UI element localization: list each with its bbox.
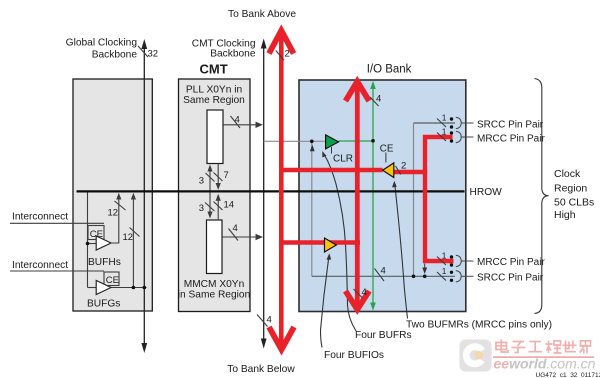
svg-text:4: 4 <box>362 287 367 298</box>
buffer BUFG <box>96 281 111 295</box>
junction dot BUFG output V2 <box>132 286 136 290</box>
glyph zi <box>512 342 526 353</box>
svg-text:UG472_c1_32_011713: UG472_c1_32_011713 <box>536 372 600 378</box>
red MRCC riser <box>425 137 454 261</box>
CE box BUFH <box>88 226 104 240</box>
slash 2 on red backbone <box>276 51 284 61</box>
red backbone vertical <box>279 33 284 348</box>
pin pair SRCC bottom <box>437 271 474 282</box>
wire BUFH output <box>111 197 119 244</box>
svg-text:MRCC Pin Pair: MRCC Pin Pair <box>477 257 545 268</box>
glyph cheng <box>546 341 562 354</box>
green net BUFR output horizontal <box>339 140 374 142</box>
CLR stem <box>331 147 333 154</box>
wire MMCM output 4 <box>222 236 258 238</box>
svg-text:32: 32 <box>148 49 159 60</box>
left clocking box <box>73 79 152 311</box>
red I/O bank vertical <box>355 84 360 307</box>
CE box BUFG <box>104 272 119 286</box>
wire bottom SRCC pin line <box>312 275 455 277</box>
MMCM rectangle <box>207 220 223 274</box>
I/O Bank box <box>299 80 466 312</box>
pin pair SRCC top <box>437 117 474 128</box>
svg-text:3: 3 <box>199 176 204 187</box>
svg-text:Four BUFIOs: Four BUFIOs <box>324 350 384 361</box>
svg-text:Four BUFRs: Four BUFRs <box>355 330 412 341</box>
svg-text:SRCC Pin Pair: SRCC Pin Pair <box>477 119 544 130</box>
svg-text:HROW: HROW <box>470 187 503 198</box>
slash 4 red bank vertical <box>354 289 363 298</box>
HROW line <box>77 190 465 192</box>
svg-text:in Same Region: in Same Region <box>178 289 251 300</box>
red horizontal HROW feed <box>281 168 382 172</box>
arrowheads up at HROW from 12-wires <box>116 193 121 200</box>
svg-text:eeworld.com.cn: eeworld.com.cn <box>494 356 596 372</box>
pointer curve Four BUFIOs <box>321 257 329 348</box>
watermark logo <box>460 340 600 378</box>
buffer BUFH <box>96 236 111 250</box>
svg-text:50 CLBs: 50 CLBs <box>554 197 594 209</box>
junction dot BUFG output backbone <box>143 286 147 290</box>
CMT box <box>179 79 251 312</box>
svg-text:4: 4 <box>267 315 272 326</box>
wire PLL down 7 <box>217 164 219 186</box>
pointer curve Two BUFMRs <box>395 185 408 319</box>
CMT clocking backbone <box>263 43 265 344</box>
svg-text:4: 4 <box>235 115 240 126</box>
svg-text:1: 1 <box>442 113 447 123</box>
junction dot BUFR input <box>310 140 314 144</box>
svg-text:CE: CE <box>106 275 119 286</box>
junction dot bottom line left <box>412 275 416 279</box>
glyph gong <box>529 342 543 352</box>
svg-text:4: 4 <box>381 266 386 277</box>
svg-text:Interconnect: Interconnect <box>12 260 68 271</box>
svg-text:I/O Bank: I/O Bank <box>367 64 412 76</box>
glyph dian <box>496 340 508 353</box>
CE stem BUFMR <box>385 153 387 163</box>
svg-text:Backbone: Backbone <box>210 49 256 60</box>
red clock trunk to banks <box>269 31 454 350</box>
slash 32 <box>138 46 148 57</box>
svg-text:4: 4 <box>376 94 381 105</box>
junction dot BUFH input <box>86 242 90 246</box>
svg-text:SRCC Pin Pair: SRCC Pin Pair <box>477 273 544 284</box>
slash 2 at BUFMR <box>396 166 401 175</box>
wire BUFG output <box>111 287 147 289</box>
svg-text:14: 14 <box>224 200 235 211</box>
PLL rectangle <box>207 110 223 164</box>
green net vertical 4 <box>372 83 374 308</box>
svg-text:1: 1 <box>442 251 447 261</box>
junction dot bottom line right <box>423 275 427 279</box>
slash 4 green vertical <box>370 97 379 106</box>
pin pair MRCC top <box>437 131 474 142</box>
svg-text:12: 12 <box>108 208 119 219</box>
glyph jie <box>580 341 591 354</box>
svg-text:Same Region: Same Region <box>183 95 245 106</box>
svg-text:1: 1 <box>442 127 447 137</box>
svg-text:2: 2 <box>285 49 290 60</box>
svg-text:Region: Region <box>554 182 587 194</box>
svg-text:7: 7 <box>224 170 229 181</box>
svg-text:Interconnect: Interconnect <box>12 212 68 223</box>
svg-text:2: 2 <box>401 161 406 172</box>
svg-text:High: High <box>554 209 576 221</box>
slash 4 bottom pin line <box>375 269 385 282</box>
svg-text:CLR: CLR <box>333 154 353 165</box>
slash 12 b <box>130 228 140 237</box>
svg-text:MRCC Pin Pair: MRCC Pin Pair <box>477 134 545 145</box>
svg-text:To Bank Below: To Bank Below <box>227 364 295 375</box>
buffer BUFIO yellow <box>325 238 337 252</box>
interconnect wire 1 <box>10 222 104 224</box>
svg-text:3: 3 <box>199 203 204 214</box>
wire PLL-MMCM 3 <box>209 168 211 215</box>
wire vertical 12 BUFG <box>132 197 134 288</box>
wire BUFG input <box>88 287 97 289</box>
wire BUFH input <box>88 243 97 245</box>
arrow down MRCC to SRCC line <box>424 264 426 270</box>
svg-text:CE: CE <box>380 144 394 155</box>
svg-text:CMT: CMT <box>200 62 228 77</box>
wire right inner vertical <box>413 123 415 276</box>
svg-text:Backbone: Backbone <box>92 50 138 61</box>
global clocking backbone <box>143 43 145 349</box>
svg-text:4: 4 <box>233 223 238 234</box>
wire BUFR input line <box>264 140 326 142</box>
slash 4 backbone below <box>257 315 268 327</box>
pin pair MRCC bottom <box>437 255 474 266</box>
wire PLL output 4 <box>223 124 258 126</box>
svg-text:Global Clocking: Global Clocking <box>66 38 138 49</box>
wire inner-left vertical <box>311 141 313 276</box>
arrow up inner vertical <box>310 145 315 152</box>
svg-text:1: 1 <box>442 266 447 276</box>
buffer BUFR green <box>326 135 339 149</box>
svg-text:BUFHs: BUFHs <box>88 257 121 268</box>
svg-text:12: 12 <box>123 232 134 243</box>
red horizontal BUFIO feed <box>281 240 360 244</box>
pointer curve Four BUFRs <box>325 155 357 331</box>
svg-text:Two BUFMRs (MRCC pins only): Two BUFMRs (MRCC pins only) <box>406 320 552 331</box>
svg-text:To Bank Above: To Bank Above <box>228 9 296 20</box>
junction dot green <box>371 139 375 143</box>
brace clock region <box>535 79 549 314</box>
svg-text:Clock: Clock <box>554 168 581 180</box>
wire top SRCC pin line <box>414 122 456 124</box>
svg-text:CE: CE <box>90 229 103 240</box>
wire MMCM up 14 <box>217 198 219 220</box>
svg-text:BUFGs: BUFGs <box>87 299 120 310</box>
wire interconnect1 down branch <box>87 192 89 288</box>
slash 12 a <box>115 201 126 210</box>
interconnect wire 2 <box>10 270 104 272</box>
glyph shi <box>563 341 577 352</box>
buffer BUFMR yellow <box>383 163 394 178</box>
